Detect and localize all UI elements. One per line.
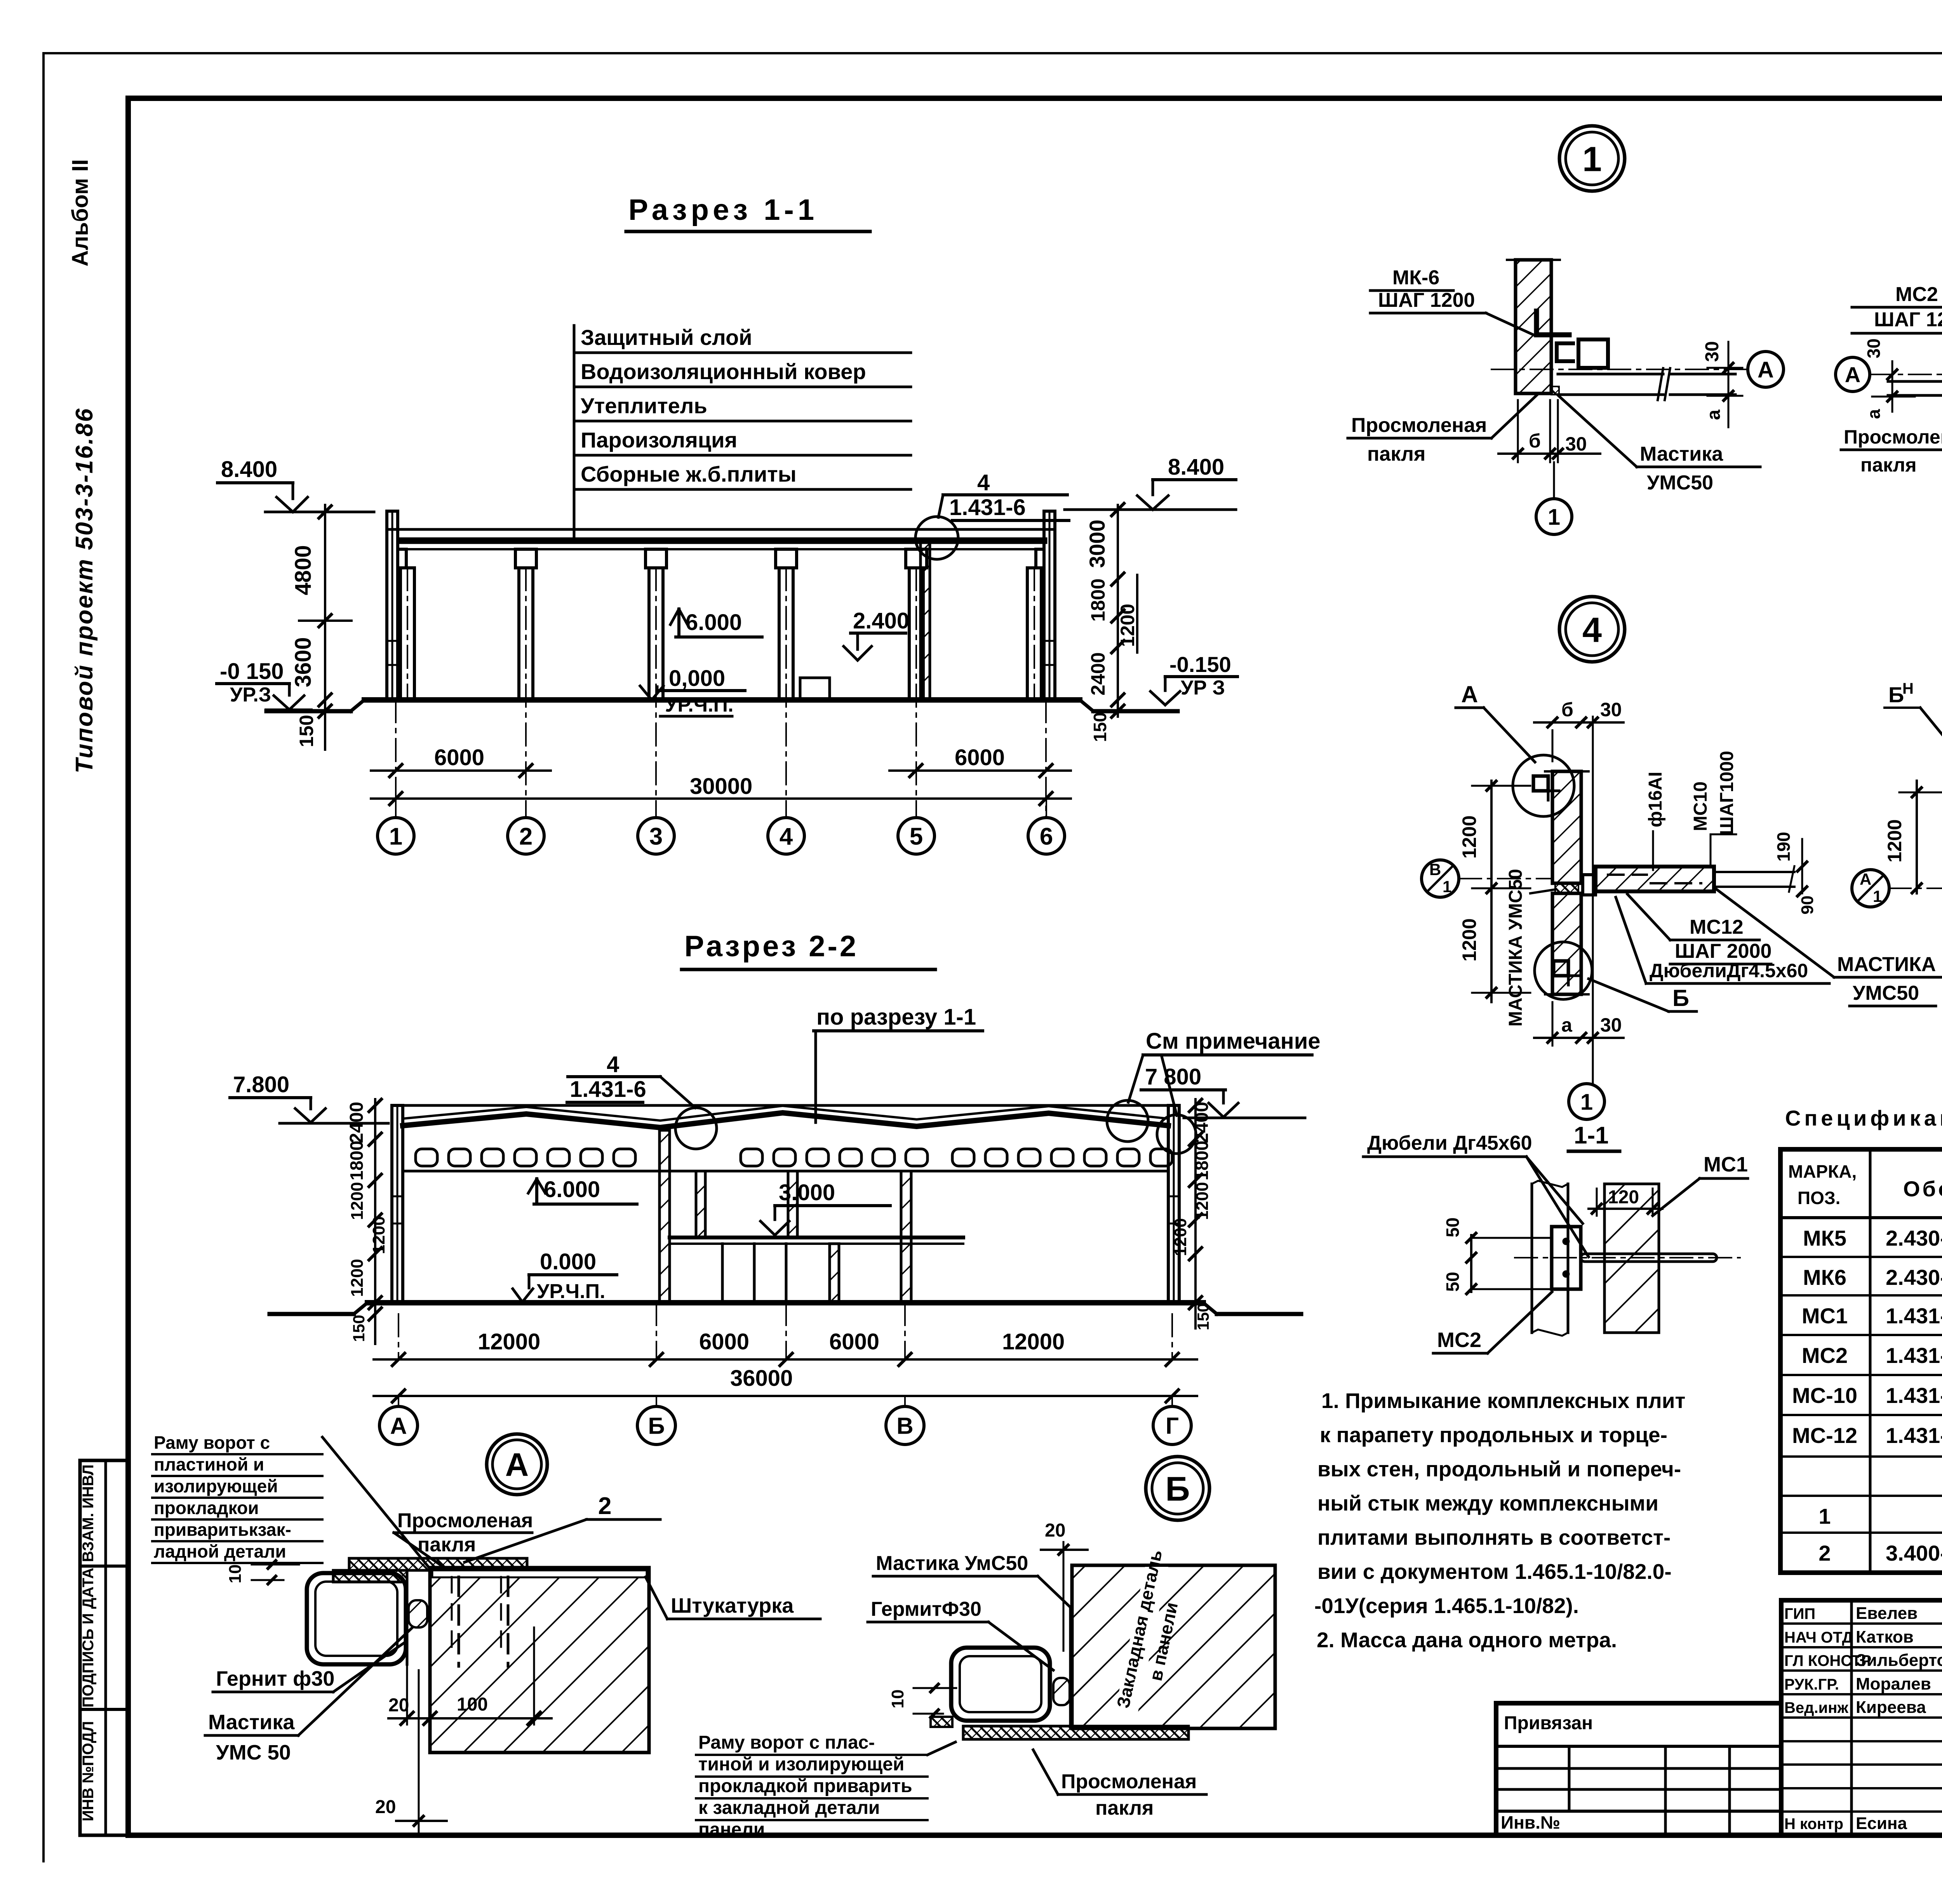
node 4: connector plates [1583,875,1596,895]
svg-text:МК6: МК6 [1803,1265,1846,1290]
svg-text:МС1: МС1 [1704,1153,1748,1176]
svg-text:1200: 1200 [348,1259,367,1297]
svg-text:150: 150 [1090,712,1110,742]
node 4: bottom dims a/30 [1534,1037,1624,1039]
title block: privyazan box [1496,1703,1781,1835]
detail A: wall block hatched [430,1568,649,1753]
spec table grid [1780,1149,1942,1573]
overall dimension 36000 [374,1395,1197,1397]
svg-text:6.000: 6.000 [686,610,742,635]
svg-text:Просмоленая: Просмоленая [1351,414,1487,437]
detail B: door frame tube [951,1648,1050,1721]
svg-text:ШАГ 2000: ШАГ 2000 [1675,940,1771,962]
svg-text:3.000: 3.000 [779,1180,835,1205]
svg-text:1: 1 [1873,887,1882,905]
svg-text:Спецификация элементов. крепле: Спецификация элементов. крепления стен [1785,1106,1942,1130]
node 1-1: wall panels vertical [1531,1184,1533,1333]
svg-text:3000: 3000 [1085,520,1109,568]
svg-text:1: 1 [1818,1504,1831,1528]
svg-text:а: а [1864,409,1884,419]
svg-text:3: 3 [649,823,663,850]
node 1 dims b / 30 [1517,400,1519,462]
svg-text:1200: 1200 [1193,1182,1212,1220]
node 4: connector element MS12 panel [1596,867,1714,891]
title block: signature table [1781,1600,1942,1835]
svg-text:Зильбертов: Зильбертов [1856,1651,1942,1670]
svg-text:4800: 4800 [291,545,316,595]
svg-text:1: 1 [1582,140,1602,179]
svg-text:1.431-6: 1.431-6 [949,495,1026,520]
svg-text:Киреева: Киреева [1856,1698,1926,1717]
svg-text:Утеплитель: Утеплитель [581,393,707,418]
node 1 axis to circle 1 [1553,462,1555,499]
axis circles 1..6 [395,799,397,817]
svg-text:20: 20 [375,1797,396,1817]
svg-text:Б: Б [1888,682,1904,707]
svg-text:А: А [1461,681,1478,707]
node 4: panel face line to circle 1 [1592,717,1594,1084]
svg-text:2400: 2400 [1087,652,1109,695]
inner wall above mezzanine [696,1171,705,1238]
svg-text:1: 1 [1443,877,1451,896]
dimension row 12000/6000/6000/12000 [398,1314,399,1359]
svg-text:ВЗАМ. ИНВЛ: ВЗАМ. ИНВЛ [80,1464,97,1562]
svg-text:УМС50: УМС50 [1647,472,1713,494]
stamp column [80,1460,128,1835]
svg-text:прокладкой приварить: прокладкой приварить [698,1776,912,1796]
svg-text:30: 30 [1600,699,1622,721]
svg-text:пакля: пакля [1367,443,1425,465]
svg-text:150: 150 [350,1315,368,1342]
svg-text:УР.Ч.П.: УР.Ч.П. [537,1280,606,1303]
svg-text:30: 30 [1600,1014,1622,1036]
svg-text:1200: 1200 [1171,1218,1190,1256]
node 4: dim 190 [1801,839,1803,893]
svg-text:пакля: пакля [418,1533,476,1556]
svg-text:1.431-6: 1.431-6 [1886,1383,1942,1408]
svg-text:по разрезу 1-1: по разрезу 1-1 [816,1004,976,1030]
svg-text:Раму ворот с плас-: Раму ворот с плас- [698,1732,875,1753]
node 4: leader circle bottom with anchor square [1535,942,1592,999]
svg-text:МАСТИКА УМС50: МАСТИКА УМС50 [1505,869,1526,1027]
columns section 1-1 [400,568,414,700]
node 4 circle [1559,597,1625,662]
detail A: door frame tube [307,1573,406,1664]
svg-text:Б: Б [1165,1470,1190,1508]
svg-text:Б: Б [1672,985,1689,1011]
svg-text:5: 5 [910,823,923,850]
svg-text:6000: 6000 [434,745,484,770]
svg-text:ИНВ №ПОДЛ: ИНВ №ПОДЛ [80,1721,97,1821]
svg-text:панели: панели [698,1819,765,1840]
svg-text:прокладкои: прокладкои [154,1498,259,1518]
2-2 left dimension chain [374,1099,376,1344]
svg-text:ладной детали: ладной детали [154,1541,286,1561]
svg-text:Водоизоляционный ковер: Водоизоляционный ковер [581,359,866,384]
svg-text:4: 4 [1582,611,1602,649]
svg-text:Привязан: Привязан [1504,1713,1593,1733]
svg-text:А: А [1845,362,1860,387]
node 1 circle [1559,126,1625,191]
svg-text:1200: 1200 [369,1216,388,1254]
2-2 right dimension chain [1194,1099,1197,1328]
svg-text:150: 150 [296,715,317,747]
svg-text:А: А [390,1413,407,1439]
svg-text:ШАГ 1200: ШАГ 1200 [1874,308,1942,331]
svg-text:7 800: 7 800 [1145,1064,1201,1089]
svg-text:УР.Ч.П.: УР.Ч.П. [665,694,734,716]
svg-text:Б: Б [648,1413,665,1439]
node 4: axis B/1 circle [1459,878,1553,879]
node 1-1: anchor plate [1552,1227,1581,1289]
detail B big circle [1146,1457,1209,1520]
svg-text:1200: 1200 [1458,918,1480,961]
right dimension chain [1117,505,1119,717]
svg-text:8.400: 8.400 [1168,454,1224,480]
svg-text:МС2: МС2 [1802,1343,1848,1368]
partition at axis V 2-2 [901,1171,911,1303]
svg-text:вых стен, продольный и попереч: вых стен, продольный и попереч- [1317,1457,1681,1481]
building section 1-1: parapet walls [387,511,398,700]
node 1-1: centerline [1515,1257,1740,1258]
svg-text:А: А [1758,357,1774,383]
svg-text:а: а [1561,1014,1573,1036]
svg-text:МС-10: МС-10 [1792,1383,1857,1408]
svg-text:6000: 6000 [829,1329,879,1354]
svg-text:0,000: 0,000 [669,666,725,691]
svg-text:1.431-6: 1.431-6 [570,1077,646,1102]
detail B: bottom gasket flange [963,1726,1189,1739]
svg-text:2.400: 2.400 [853,608,909,634]
svg-text:ПОЗ.: ПОЗ. [1798,1188,1840,1208]
svg-text:Мастика УмС50: Мастика УмС50 [876,1552,1028,1575]
svg-text:2: 2 [598,1493,611,1519]
svg-text:Просмоленая: Просмоленая [397,1509,533,1532]
svg-text:190: 190 [1773,832,1794,862]
svg-text:МС-12: МС-12 [1792,1423,1857,1448]
svg-text:Типовой проект 503-3-16.86: Типовой проект 503-3-16.86 [71,407,98,773]
svg-text:Инв.№: Инв.№ [1501,1812,1560,1833]
svg-text:50: 50 [1443,1272,1463,1291]
svg-text:Моралев: Моралев [1856,1674,1931,1693]
detail A big circle [487,1434,547,1495]
node 4: rebar dashes in panel [1608,874,1647,876]
svg-text:тиной и изолирующей: тиной и изолирующей [698,1754,904,1775]
svg-text:В: В [1429,860,1441,879]
svg-text:2: 2 [1818,1541,1831,1565]
svg-text:0.000: 0.000 [540,1249,596,1274]
detail A: top gasket band [349,1558,527,1570]
left dimension chain [324,505,326,750]
svg-text:В: В [896,1413,913,1439]
svg-text:Просмоленая: Просмоленая [1061,1770,1197,1793]
svg-text:ПОДПИСЬ И ДАТА: ПОДПИСЬ И ДАТА [80,1568,97,1707]
svg-text:УР З: УР З [1181,677,1225,699]
svg-text:Разрез 1-1: Разрез 1-1 [628,193,818,226]
sawtooth roof profile 2-2 [403,1113,1168,1128]
svg-text:2: 2 [519,823,532,850]
node 4: leader circle top with anchor square [1513,755,1574,816]
svg-text:См примечание: См примечание [1146,1029,1321,1054]
svg-text:90: 90 [1798,896,1817,915]
svg-text:1200: 1200 [1458,815,1480,858]
svg-text:вии с документом 1.465.1-10/82: вии с документом 1.465.1-10/82.0- [1317,1559,1672,1584]
svg-text:1800: 1800 [346,1141,367,1180]
node 1: axis line and circle A [1491,369,1747,370]
svg-text:8.400: 8.400 [221,457,277,482]
svg-text:1: 1 [1548,505,1560,530]
svg-text:пластиной и: пластиной и [154,1454,264,1474]
svg-text:приваритькзак-: приваритькзак- [154,1519,291,1540]
ceiling line 2-2 [403,1170,1168,1173]
svg-text:МС1: МС1 [1802,1304,1848,1328]
svg-text:Вед.инж: Вед.инж [1784,1699,1848,1716]
node 2: wall panel band horizontal [1888,380,1942,383]
node 4: vertical dims 1200/1200 [1490,781,1493,1002]
partition wall at axis 5 [921,542,930,700]
svg-text:3.400-6/76: 3.400-6/76 [1886,1541,1942,1565]
svg-text:ный стык между комплексными: ный стык между комплексными [1317,1491,1658,1515]
roof plate ovals row 2-2 [416,1149,437,1166]
svg-text:30000: 30000 [690,774,752,799]
svg-text:12000: 12000 [1002,1329,1065,1354]
svg-text:1.431-6: 1.431-6 [1886,1343,1942,1368]
svg-text:МС2: МС2 [1437,1328,1481,1352]
svg-text:Просмоленая: Просмоленая [1844,426,1942,448]
floor line section 1-1 [364,697,1080,703]
door opening [800,678,830,700]
node 1: wall [1516,260,1551,393]
svg-text:120: 120 [1608,1187,1639,1208]
svg-text:плитами выполнять в соответст-: плитами выполнять в соответст- [1317,1525,1671,1549]
svg-text:12000: 12000 [478,1329,540,1354]
svg-text:ГермитФ30: ГермитФ30 [871,1598,981,1620]
svg-text:пакля: пакля [1860,454,1917,476]
svg-text:МС2: МС2 [1895,283,1938,306]
svg-text:МАСТИКА: МАСТИКА [1837,953,1936,976]
svg-text:4: 4 [977,470,990,495]
svg-text:6: 6 [1040,823,1053,850]
svg-text:МК-6: МК-6 [1392,266,1439,289]
svg-text:100: 100 [457,1694,488,1715]
svg-text:А: А [1860,870,1871,888]
sheet outer border [44,52,1942,54]
svg-text:30: 30 [1565,433,1587,455]
svg-text:Альбом II: Альбом II [68,159,93,266]
svg-text:Гернит ф30: Гернит ф30 [216,1667,334,1690]
svg-text:30: 30 [1702,341,1723,362]
svg-text:4: 4 [780,823,793,850]
svg-text:2.430-3, вып. 3: 2.430-3, вып. 3 [1886,1265,1942,1290]
svg-text:1.431-6: 1.431-6 [1886,1304,1942,1328]
svg-text:-01У(серия 1.465.1-10/82).: -01У(серия 1.465.1-10/82). [1314,1594,1579,1618]
svg-text:УМС50: УМС50 [1853,982,1919,1004]
svg-text:Обозначение: Обозначение [1903,1177,1942,1201]
svg-text:4: 4 [607,1052,619,1077]
svg-text:1-1: 1-1 [1574,1122,1609,1149]
svg-text:НАЧ ОТД: НАЧ ОТД [1784,1629,1853,1646]
svg-text:7.800: 7.800 [233,1072,289,1097]
detail B: embed strip white band [1112,1567,1168,1727]
node 4: joint gasket [1555,884,1578,893]
svg-text:Мастика: Мастика [208,1711,295,1734]
node 4: circle 1 below [1569,1084,1604,1119]
svg-text:Дюбели Дг45х60: Дюбели Дг45х60 [1367,1132,1532,1154]
detail A: mastic seam [409,1600,427,1627]
node 5: vertical dim 1200 [1916,781,1918,893]
node 4: wall upper panel [1552,771,1581,883]
svg-text:МК5: МК5 [1803,1226,1846,1250]
svg-text:Сборные ж.б.плиты: Сборные ж.б.плиты [581,462,797,486]
svg-text:2. Масса дана одного метра.: 2. Масса дана одного метра. [1317,1628,1617,1652]
svg-text:МС12: МС12 [1690,916,1744,938]
svg-text:30: 30 [1864,338,1884,358]
svg-text:1: 1 [389,823,402,850]
node 1-1: hatched wall right [1604,1184,1659,1333]
svg-text:10: 10 [226,1565,245,1584]
svg-text:Штукатурка: Штукатурка [671,1594,794,1617]
partition at axis B 2-2 [660,1130,670,1303]
node 1-1: dims 50/50 [1470,1235,1472,1292]
node 5: axis A/1 circle [1888,888,1942,889]
callout circles right 2-2 [1107,1100,1148,1142]
svg-text:а: а [1704,409,1724,420]
svg-text:Н контр: Н контр [1784,1815,1843,1833]
svg-text:1800: 1800 [1087,578,1109,621]
svg-text:А: А [505,1446,529,1483]
svg-text:Н: Н [1902,680,1914,697]
svg-text:1200: 1200 [1884,819,1905,862]
detail A: anchor dowels dashed [458,1577,460,1666]
bottom dimension lines 6000 [395,700,397,817]
floor line 2-2 [367,1300,1203,1305]
svg-text:б: б [1529,430,1541,452]
node 1: panel band [1558,373,1663,376]
svg-text:ф16АI: ф16АI [1645,772,1666,827]
svg-text:РУК.ГР.: РУК.ГР. [1784,1676,1839,1693]
axis circles A B V G [398,1396,399,1406]
svg-text:1800: 1800 [1192,1141,1212,1180]
svg-text:Пароизоляция: Пароизоляция [581,428,737,452]
svg-text:пакля: пакля [1095,1797,1154,1819]
svg-text:б: б [1561,699,1573,721]
node 1: gasket corner [1551,386,1559,395]
node 4: top dims b/30 [1534,721,1624,724]
svg-text:МС10: МС10 [1690,781,1711,831]
node 1-1: anchor rod [1581,1254,1717,1262]
svg-text:Катков: Катков [1856,1627,1914,1646]
node 1: anchor MK-6 [1537,311,1569,335]
svg-text:1: 1 [1580,1089,1593,1115]
svg-text:ДюбелиДг4.5х60: ДюбелиДг4.5х60 [1650,960,1808,982]
svg-text:2400: 2400 [346,1102,367,1143]
svg-text:УМС 50: УМС 50 [216,1741,291,1764]
svg-text:1200: 1200 [1117,604,1138,647]
svg-text:Евелев: Евелев [1856,1604,1918,1623]
svg-text:изолирующей: изолирующей [154,1476,278,1496]
svg-text:МАРКА,: МАРКА, [1788,1161,1857,1182]
svg-text:1. Примыкание комплексных плит: 1. Примыкание комплексных плит [1321,1389,1686,1413]
detail B: wall block hatched [1072,1565,1275,1728]
svg-text:150: 150 [1194,1303,1212,1330]
svg-text:Разрез 2-2: Разрез 2-2 [684,930,858,963]
svg-text:Защитный слой: Защитный слой [581,325,752,350]
svg-text:к закладной детали: к закладной детали [698,1798,880,1818]
svg-text:ГИП: ГИП [1784,1605,1815,1622]
svg-text:6000: 6000 [955,745,1005,770]
mezzanine slab [670,1236,963,1239]
svg-text:3600: 3600 [291,637,316,687]
svg-text:6000: 6000 [699,1329,749,1354]
svg-text:-0.150: -0.150 [1169,652,1231,677]
svg-text:Г: Г [1166,1413,1179,1439]
node 4: wall lower panel [1552,893,1581,994]
svg-text:10: 10 [888,1690,907,1709]
svg-text:50: 50 [1443,1217,1463,1237]
svg-text:Есина: Есина [1856,1814,1907,1833]
svg-text:УР.З: УР.З [230,684,271,706]
svg-text:ШАГ 1200: ШАГ 1200 [1378,289,1475,312]
svg-text:1200: 1200 [348,1182,367,1220]
building 2-2: outer walls [392,1105,403,1303]
svg-text:6.000: 6.000 [544,1177,600,1202]
svg-text:36000: 36000 [730,1366,793,1391]
detail B: mastic seam [1053,1678,1070,1705]
roof support beams [398,549,406,568]
svg-text:2.430-3, вып. 3: 2.430-3, вып. 3 [1886,1226,1942,1250]
svg-text:20: 20 [388,1695,409,1716]
svg-text:-0 150: -0 150 [220,659,284,684]
parapet top line 2-2 [392,1104,1179,1107]
roof slab section 1-1 [388,528,1053,531]
svg-text:Мастика: Мастика [1640,443,1723,465]
svg-text:Раму ворот с: Раму ворот с [154,1432,270,1453]
node 2: axis circle A and horizontal axis [1836,357,1870,392]
svg-text:1.431-6: 1.431-6 [1886,1423,1942,1448]
svg-text:к парапету продольных и торце-: к парапету продольных и торце- [1320,1423,1667,1447]
svg-text:20: 20 [1045,1520,1065,1541]
door posts under mezzanine [721,1244,724,1303]
svg-text:ШАГ1000: ШАГ1000 [1717,751,1737,835]
